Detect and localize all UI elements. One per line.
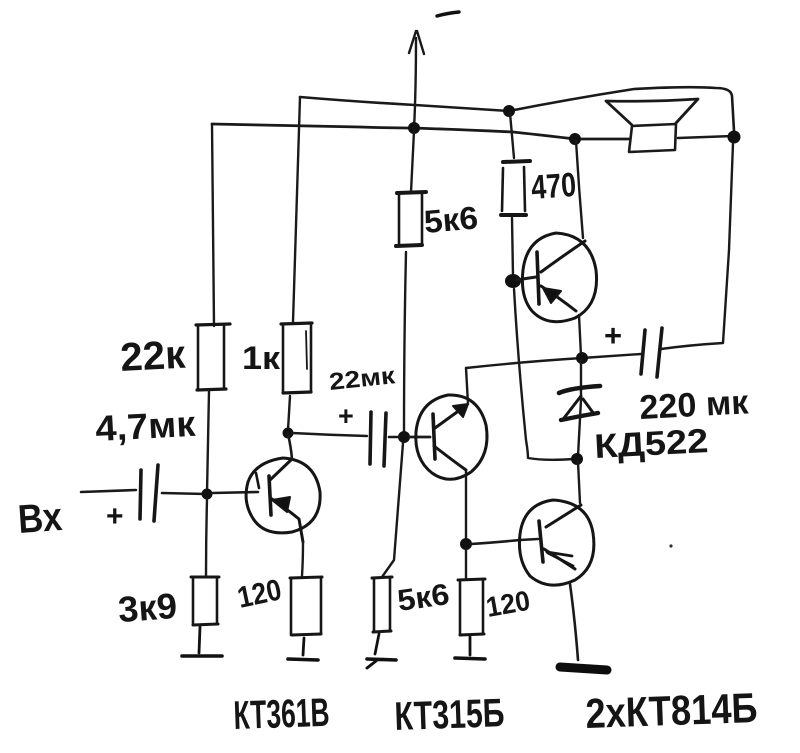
resistor R4 120 [290,577,322,635]
wire R 1k to node B [288,396,290,430]
ground (power, thick) [560,667,607,670]
transistor Q2 KT315B [416,395,487,479]
resistor R2 1k [281,323,312,393]
svg-text:22мк: 22мк [328,362,398,396]
wire diode to node F [578,400,581,456]
node B junction (Q1 collector / C2 feed) [283,428,294,439]
label minus [437,12,459,16]
svg-text:2хКТ814Б: 2хКТ814Б [585,684,759,737]
wire node B to C2 [292,433,367,436]
node Q3 base blob [505,274,521,288]
supply arrow (minus rail) [409,31,424,129]
wire second branch from upper rail to R 1k [293,97,300,322]
resistor R5 5k6 (upper) [396,192,426,246]
ink speck [669,544,672,547]
svg-text:5к6: 5к6 [395,578,451,618]
capacitor C1 4.7uF [140,465,158,521]
resistor R1 22k [196,324,230,390]
wire C1 to input node [162,493,206,494]
node F junction (diode / Q4 collector) [571,453,583,465]
svg-text:220 мк: 220 мк [638,383,750,427]
node junction (right corner of rail) [728,131,741,144]
wire node D to diode VD1 [580,361,582,398]
node input junction [202,489,213,500]
svg-text:470: 470 [530,166,578,207]
wire R 22k to input node [207,391,209,493]
wire R 5k6 to node C (bias line) [404,252,406,432]
svg-text:5к6: 5к6 [422,199,479,240]
node junction (470 on upper rail) [503,105,515,117]
resistor R6 5k6 (lower) [372,577,392,632]
wire Q3 base blob to base bar [516,277,536,280]
ground (R 3k9) [182,627,222,656]
wire Q1 collector to node B [288,434,292,459]
svg-text:4,7мк: 4,7мк [94,403,197,449]
wire C4 right plate to right rail drop [661,143,733,349]
svg-text:22к: 22к [119,333,187,380]
ground (R 120 lower) [455,637,485,659]
wire Q3 base blob down to node F (diode bottom) [514,289,573,460]
diode VD1 KD522 [559,386,600,420]
transistor Q4 KT814B (lower) [519,500,593,585]
speaker LS1 box [629,124,676,152]
wire lower supply rail right segment [678,136,733,138]
wire node E to R 120 lower [465,549,467,578]
wire input lead [81,490,136,492]
wire node C down to R 5k6 lower [382,443,403,577]
wire left branch from rail to R 22k [212,124,214,326]
svg-text:120: 120 [484,585,533,623]
ground (R 120 first) [288,638,318,660]
wire Q4 emitter to ground [570,584,578,660]
wire C3 to Q3 base blob [512,218,513,276]
wire Q1 emitter to R 120 [302,542,303,576]
wire Q3 emitter down to node D [579,315,581,356]
node E junction (Q2/Q4 base/R120) [460,538,472,550]
capacitor C2 22uF [370,412,386,466]
node junction (Q3 collector on lower rail) [569,133,581,145]
svg-text:КД522: КД522 [593,422,709,466]
wire node C to Q2 base [409,436,430,439]
wire rail node A to R 5k6 top [411,131,414,192]
svg-text:+: + [604,318,622,353]
wire rail node to Q3 collector [576,141,583,238]
wire Q2 collector down to node E [465,471,467,541]
capacitor C4 220uF [641,328,662,377]
capacitor C3 470 [501,161,530,215]
svg-text:120: 120 [235,573,285,614]
wire input node to R 3k9 [206,499,207,576]
wire upper rail node to C3 470 [510,113,514,158]
resistor R3 3k9 [191,577,219,625]
speaker LS1 horn [606,99,698,125]
node C junction (C2 / Q2 base / bias divider) [398,431,410,443]
node A junction (arrow/5k6 on lower rail) [408,122,420,134]
svg-text:1к: 1к [242,340,281,376]
node D junction (output) [576,352,588,364]
svg-text:Вх: Вх [17,495,64,542]
svg-text:+: + [338,401,354,431]
svg-text:КТ315Б: КТ315Б [394,691,505,739]
wire upper supply rail [300,87,734,131]
wire input node to Q1 base [212,492,258,493]
svg-text:+: + [106,500,124,533]
wire lower supply rail left segment [212,124,629,139]
wire node E to Q4 base [471,539,538,544]
transistor Q1 KT361V [246,458,320,542]
wire output line (to node D and C4) [466,354,641,368]
ground (R 5k6 lower) [367,634,396,668]
wire node F down to Q4 collector [578,462,580,503]
wire C2 right plate to node C [389,436,399,439]
resistor R7 120 (lower) [458,579,485,635]
svg-text:3к9: 3к9 [117,585,179,630]
wire Q2 emitter up to output line [466,368,468,404]
svg-text:КТ361В: КТ361В [233,691,330,738]
transistor Q3 KT814B (upper) [522,233,596,322]
